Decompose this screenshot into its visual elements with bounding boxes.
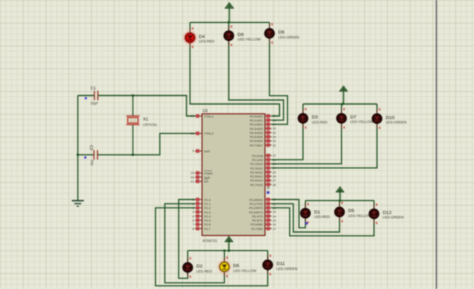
- junction: [228, 249, 231, 252]
- pin P2.3/A11 (24) right: [250, 166, 276, 170]
- svg-text:P0.7/AD7: P0.7/AD7: [250, 143, 263, 147]
- node blue state marker right side: [267, 191, 270, 194]
- pin P3.1/TXD (11) right: [250, 202, 276, 206]
- svg-text:X1: X1: [143, 117, 149, 122]
- wire D9 cathode to P0.2: [270, 38, 288, 124]
- wire: [373, 201, 375, 209]
- svg-text:33pF: 33pF: [91, 102, 99, 106]
- wire: [304, 201, 306, 209]
- pin XTAL1 (19) left: [191, 114, 214, 118]
- wire: [78, 154, 94, 156]
- node gray state marker right side: [267, 187, 270, 190]
- pin P2.0/A8 (21) right: [252, 153, 276, 157]
- pin P1.4 (5) left: [192, 214, 211, 218]
- node blue state marker D1 cathode: [305, 222, 307, 224]
- LED D2: [183, 257, 213, 278]
- svg-text:LED-RED: LED-RED: [199, 40, 215, 44]
- pin P0.4/AD4 (35) right: [250, 131, 277, 135]
- svg-text:19: 19: [191, 114, 195, 118]
- svg-text:U1: U1: [203, 108, 209, 113]
- pin ALE (30) left: [191, 175, 210, 179]
- LED D3: [298, 108, 328, 129]
- svg-text:33p: 33p: [90, 160, 94, 166]
- pin P0.1/AD1 (38) right: [250, 118, 277, 122]
- ground: [72, 201, 84, 207]
- junction: [223, 249, 226, 252]
- capacitor C2: [84, 145, 97, 166]
- LED D12: [369, 203, 404, 224]
- svg-text:LED-RED: LED-RED: [312, 120, 328, 124]
- wire bus lower right row: [305, 200, 374, 202]
- pin P3.2/INT0 (12) right: [249, 206, 276, 210]
- pin P2.2/A10 (23) right: [250, 162, 276, 166]
- pin P1.5 (6) left: [192, 218, 211, 222]
- wire bus bottom row: [188, 250, 268, 252]
- pin PSEN (29) left: [191, 171, 213, 176]
- svg-text:C1: C1: [91, 85, 97, 90]
- wire: [189, 22, 191, 33]
- wire: [98, 133, 196, 154]
- junction: [341, 103, 344, 106]
- svg-text:28: 28: [273, 183, 277, 187]
- pin P2.6/A14 (27) right: [250, 178, 276, 182]
- wire: [267, 251, 269, 260]
- svg-text:18: 18: [191, 132, 195, 136]
- pin P2.1/A9 (22) right: [252, 158, 276, 162]
- wire: [228, 22, 230, 31]
- pin P1.0 (1) left: [192, 197, 211, 201]
- LED D10: [372, 108, 407, 129]
- LED D4: [183, 27, 215, 48]
- pin P3.7/RD (17) right: [251, 226, 276, 230]
- wire D11 cathode to P1.2: [156, 208, 268, 286]
- svg-text:C2: C2: [89, 145, 94, 151]
- junction: [339, 199, 342, 202]
- svg-text:LED-GREEN: LED-GREEN: [386, 121, 407, 125]
- svg-text:LED-GREEN: LED-GREEN: [383, 216, 404, 220]
- wire: [269, 22, 271, 28]
- wire: [77, 96, 79, 201]
- wire bus top row: [190, 21, 270, 23]
- pin P3.5/T1 (15) right: [252, 218, 276, 222]
- wire: [98, 96, 195, 117]
- svg-text:LED-YELLOW: LED-YELLOW: [350, 120, 374, 124]
- pin P0.6/AD6 (33) right: [250, 139, 277, 143]
- wire D7 cathode to P2.2: [272, 123, 342, 164]
- wire D8 cathode to P0.1: [229, 41, 284, 121]
- svg-text:P1.7: P1.7: [204, 227, 211, 231]
- pin P1.3 (4) left: [192, 210, 211, 214]
- wire D4 cathode to P0.0: [190, 43, 280, 116]
- LED D6: [217, 257, 257, 278]
- wire: [223, 251, 225, 262]
- pin P3.4/T0 (14) right: [252, 214, 276, 218]
- wire: [187, 251, 189, 263]
- svg-text:P3.7/RD: P3.7/RD: [251, 227, 263, 231]
- svg-text:AT89C51: AT89C51: [203, 239, 218, 243]
- power symbol middle: [340, 86, 347, 104]
- wire: [78, 95, 94, 97]
- pin P2.5/A13 (26) right: [250, 174, 276, 178]
- wire: [302, 104, 304, 114]
- wire D5 cathode to P3.1: [272, 204, 340, 232]
- sheet border: [435, 0, 437, 289]
- svg-text:31: 31: [191, 180, 195, 184]
- wire: [376, 104, 378, 114]
- svg-text:32: 32: [273, 143, 277, 147]
- pin P1.7 (8) left: [192, 226, 211, 230]
- pin P2.4/A12 (25) right: [250, 170, 276, 174]
- capacitor C1: [85, 85, 98, 105]
- pin P0.0/AD0 (39) right: [250, 114, 277, 118]
- svg-text:CRYSTAL: CRYSTAL: [143, 123, 158, 127]
- wire D12 cathode to P3.2: [272, 208, 374, 236]
- LED D9: [265, 23, 300, 44]
- pin P2.7/A15 (28) right: [250, 182, 276, 186]
- svg-text:LED-GREEN: LED-GREEN: [276, 267, 297, 271]
- svg-text:LED-RED: LED-RED: [314, 215, 330, 219]
- wire D2 cathode to P1.0: [179, 200, 195, 279]
- IC U1 AT89C51 body: [202, 108, 265, 243]
- pin P3.6/WR (16) right: [251, 222, 277, 226]
- svg-text:LED-RED: LED-RED: [196, 269, 212, 273]
- wire D6 cathode to P1.1: [165, 204, 225, 283]
- LED D5: [335, 202, 372, 223]
- svg-text:LED-YELLOW: LED-YELLOW: [238, 38, 262, 42]
- wire D1 cathode to P3.0: [272, 200, 306, 228]
- LED D1: [301, 203, 331, 224]
- pin P1.1 (2) left: [192, 202, 211, 206]
- svg-text:RST: RST: [204, 149, 210, 153]
- junction: [132, 154, 135, 157]
- svg-text:LED-GREEN: LED-GREEN: [278, 35, 299, 39]
- LED D7: [337, 108, 374, 129]
- LED D8: [224, 25, 261, 46]
- pin P1.6 (7) left: [192, 222, 211, 226]
- power symbol top: [225, 3, 233, 23]
- crystal X1: [126, 96, 157, 155]
- pin P0.7/AD7 (32) right: [250, 143, 277, 147]
- LED D11: [263, 255, 298, 276]
- junction: [77, 154, 80, 157]
- wire D10 cathode to P2.3: [272, 124, 377, 168]
- svg-text:17: 17: [273, 227, 277, 231]
- pin P1.2 (3) left: [192, 206, 211, 210]
- wire: [339, 201, 341, 207]
- pin P0.3/AD3 (36) right: [250, 126, 277, 130]
- wire: [341, 104, 343, 114]
- power symbol lower right: [336, 187, 343, 201]
- svg-text:XTAL1: XTAL1: [204, 114, 213, 118]
- svg-text:LED-YELLOW: LED-YELLOW: [348, 214, 372, 218]
- junction: [132, 94, 135, 97]
- pin EA (31) left: [191, 179, 210, 184]
- pin P0.2/AD2 (37) right: [250, 122, 277, 126]
- junction: [228, 21, 231, 24]
- power symbol bottom: [225, 237, 232, 251]
- pin P0.5/AD5 (34) right: [250, 135, 277, 139]
- pin RST (9) left: [192, 149, 210, 153]
- pin P3.3/INT1 (13) right: [249, 210, 276, 214]
- pin XTAL2 (18) left: [191, 131, 214, 135]
- svg-text:XTAL2: XTAL2: [204, 132, 213, 136]
- pin P3.0/RXD (10) right: [249, 197, 276, 201]
- wire bus middle row: [303, 103, 377, 105]
- svg-text:LED-YELLOW: LED-YELLOW: [233, 269, 257, 273]
- wire D3 cathode to P2.1: [272, 123, 303, 159]
- svg-text:P2.7/A15: P2.7/A15: [250, 183, 263, 187]
